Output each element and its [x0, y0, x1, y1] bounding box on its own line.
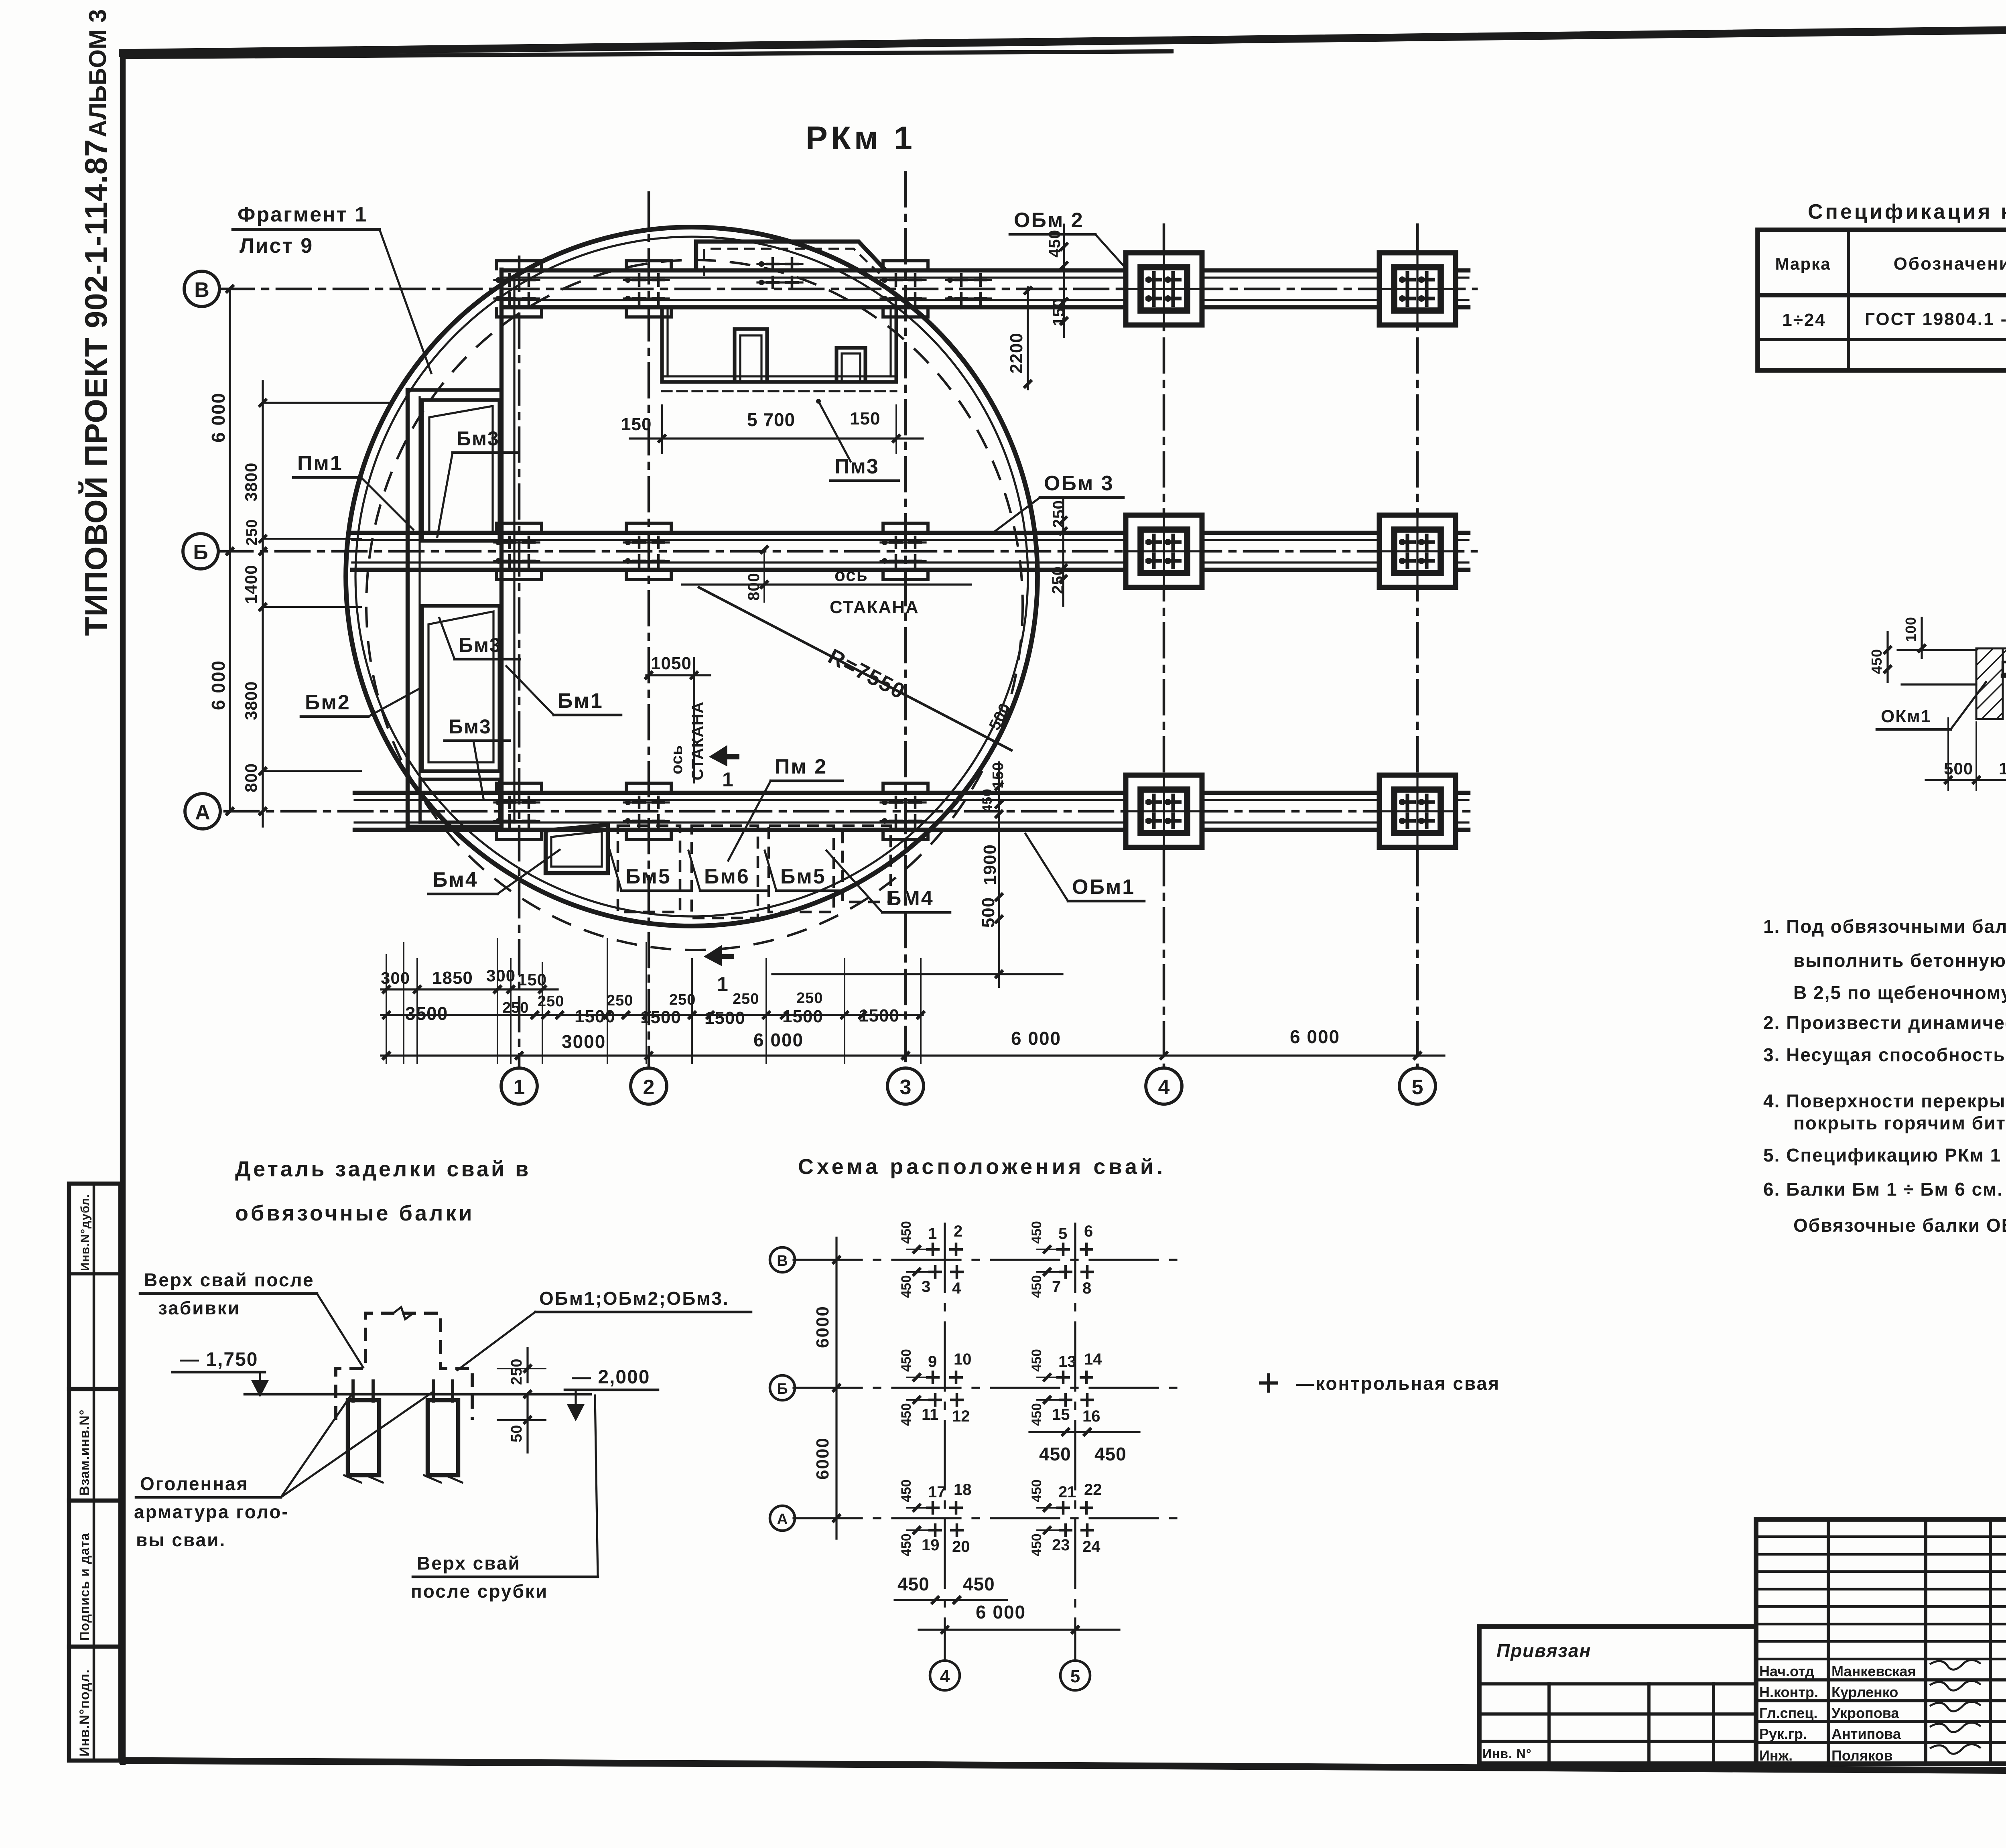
scheme axis Б — [770, 1375, 1180, 1400]
section mark 1 (upper) — [711, 747, 739, 791]
svg-text:— 2,000: — 2,000 — [572, 1367, 650, 1388]
scheme axis В — [770, 1247, 1180, 1272]
scheme pile group А/4 — [899, 1479, 972, 1556]
svg-text:В: В — [194, 278, 209, 302]
svg-text:4: 4 — [1158, 1076, 1170, 1099]
svg-text:3: 3 — [922, 1278, 930, 1296]
scheme bottom dim 6000 — [919, 1602, 1119, 1634]
pile marks 2/А — [624, 796, 669, 828]
svg-text:5: 5 — [1058, 1225, 1067, 1243]
svg-text:6. Балки Бм 1 ÷ Бм 6 см. лис: 6. Балки Бм 1 ÷ Бм 6 см. листы 10 ÷ 11 — [1763, 1179, 2006, 1200]
label Бм3 lower — [445, 715, 510, 798]
label Бм5 left — [610, 851, 689, 891]
svg-text:Б: Б — [777, 1381, 788, 1397]
bottom slabs Бм5/Бм6/Бм5 (dashed) — [618, 826, 891, 918]
detail: level -2.000 — [565, 1367, 658, 1419]
detail: dim 50 — [497, 1394, 546, 1452]
right dim 2200 — [1007, 286, 1032, 389]
beam ОБм2 raised segment over circle — [696, 242, 886, 270]
svg-text:15: 15 — [1052, 1406, 1070, 1424]
bottom slab Бм4 (left, solid) — [546, 825, 608, 873]
inner wall circle — [355, 237, 1028, 916]
pile cap at 4/В — [1126, 253, 1202, 325]
svg-text:250: 250 — [607, 992, 633, 1009]
svg-text:10: 10 — [954, 1350, 972, 1368]
pile marks 2/В — [624, 273, 669, 305]
left chord wall — [408, 390, 501, 827]
svg-text:22: 22 — [1084, 1481, 1102, 1499]
pier widening axis1/В — [497, 261, 542, 317]
detail: pile 2 — [424, 1381, 462, 1482]
left dim chain 6000/6000 — [208, 257, 234, 843]
label Бм2 — [301, 688, 420, 717]
svg-text:6000: 6000 — [813, 1306, 832, 1348]
svg-text:ОБм1: ОБм1 — [1072, 875, 1135, 899]
svg-text:Инж.: Инж. — [1759, 1747, 1793, 1764]
detail: ground line — [245, 1393, 591, 1396]
svg-text:1: 1 — [928, 1225, 937, 1243]
svg-text:Курленко: Курленко — [1831, 1684, 1898, 1700]
svg-text:СТАКАНА: СТАКАНА — [830, 597, 919, 617]
svg-text:250: 250 — [244, 519, 260, 546]
label Бм1 — [506, 666, 621, 715]
svg-text:Инв. N°: Инв. N° — [1482, 1746, 1532, 1761]
axis 5 bubble — [1399, 1068, 1435, 1104]
svg-text:после срубки: после срубки — [411, 1581, 548, 1602]
scheme pile group Б/4 — [899, 1349, 972, 1426]
svg-text:СТАКАНА: СТАКАНА — [689, 701, 707, 780]
svg-text:17: 17 — [928, 1483, 946, 1501]
svg-text:2: 2 — [643, 1076, 655, 1099]
svg-text:Бм5: Бм5 — [780, 865, 826, 888]
svg-text:23: 23 — [1052, 1536, 1070, 1554]
pile marks 3/А — [881, 796, 926, 828]
svg-text:450: 450 — [1029, 1403, 1044, 1426]
svg-text:Бм6: Бм6 — [704, 865, 750, 888]
grid axis В line — [220, 288, 1476, 290]
label Бм3 middle — [439, 618, 520, 659]
svg-text:1500: 1500 — [705, 1008, 745, 1028]
svg-text:выполнить бетонную подготовку: выполнить бетонную подготовку h = 100 мм… — [1793, 950, 2006, 971]
detail: level -1.750 — [173, 1349, 267, 1395]
svg-text:ГОСТ 19804.1 - 79*: ГОСТ 19804.1 - 79* — [1865, 309, 2006, 329]
svg-text:1900: 1900 — [1999, 759, 2006, 778]
svg-text:450: 450 — [899, 1533, 914, 1556]
svg-text:покрыть горячим битумом за: покрыть горячим битумом за 2 раза. — [1793, 1113, 2006, 1133]
svg-text:ОБм 2: ОБм 2 — [1014, 209, 1084, 232]
scheme pile group В/4 — [899, 1221, 964, 1298]
svg-text:4: 4 — [952, 1279, 961, 1297]
notes block — [1763, 916, 2006, 1236]
section: ground lines — [1898, 650, 2006, 684]
axis 3 bubble — [887, 1068, 924, 1104]
svg-text:2200: 2200 — [1007, 333, 1026, 374]
scheme left dim 6000/6000 — [813, 1238, 841, 1539]
svg-text:вы сваи.: вы сваи. — [136, 1529, 226, 1550]
bottom dim chain 3000/6000/6000/6000 — [381, 1026, 1444, 1060]
svg-text:Нач.отд: Нач.отд — [1759, 1663, 1814, 1679]
svg-text:500: 500 — [979, 897, 998, 928]
bottom dim chain 3500/250x/1500s — [381, 990, 925, 1028]
svg-text:Гл.спец.: Гл.спец. — [1759, 1705, 1817, 1721]
svg-text:АЛЬБОМ 3: АЛЬБОМ 3 — [84, 9, 111, 137]
right dims 250/250 (axis Б) — [1049, 498, 1068, 606]
svg-text:450: 450 — [1029, 1479, 1044, 1502]
svg-text:250: 250 — [508, 1359, 525, 1385]
pile cap at 5/Б — [1379, 515, 1456, 587]
outer wall circle — [346, 227, 1038, 926]
scheme dim 450/450 below А/4 — [895, 1574, 1007, 1604]
radius R=7550 — [699, 587, 1014, 750]
svg-text:21: 21 — [1058, 1483, 1076, 1501]
svg-text:Инв.N°дубл.: Инв.N°дубл. — [79, 1194, 92, 1271]
pile cap at 4/Б — [1126, 515, 1202, 587]
grid axis 4 line — [1163, 225, 1165, 1068]
svg-text:3800: 3800 — [242, 463, 260, 502]
svg-text:6 000: 6 000 — [753, 1030, 804, 1050]
spec row 1 — [1782, 309, 2006, 330]
svg-text:1500: 1500 — [782, 1007, 823, 1026]
svg-text:6000: 6000 — [813, 1437, 832, 1480]
pile marks 1/А — [494, 796, 539, 828]
svg-text:450: 450 — [1046, 229, 1064, 258]
pile cap at 4/А — [1126, 775, 1202, 847]
svg-text:обвязочные балки: обвязочные балки — [235, 1201, 475, 1225]
label ОБм1 — [1025, 834, 1144, 901]
svg-text:450: 450 — [1029, 1221, 1044, 1244]
label Бм5 right — [765, 851, 844, 891]
svg-text:6: 6 — [1084, 1223, 1093, 1240]
pier widening axis3/В — [883, 261, 928, 317]
svg-text:1÷24: 1÷24 — [1782, 310, 1826, 330]
svg-text:1850: 1850 — [432, 968, 473, 988]
svg-text:Бм3: Бм3 — [459, 634, 501, 656]
pile cap at 5/А — [1379, 775, 1456, 847]
svg-text:6 000: 6 000 — [976, 1602, 1026, 1623]
svg-text:250: 250 — [538, 993, 564, 1010]
svg-text:3500: 3500 — [405, 1003, 448, 1024]
svg-text:9: 9 — [928, 1353, 937, 1371]
pile marks 1/Б — [494, 536, 539, 568]
scheme legend: контрольная свая — [1259, 1373, 1500, 1394]
svg-text:5: 5 — [1412, 1076, 1423, 1099]
ring beam ОБм3 (axis Б) outline — [352, 533, 1468, 570]
svg-text:1: 1 — [722, 768, 733, 791]
svg-text:450: 450 — [899, 1403, 914, 1426]
svg-text:1. Под обвязочными балками: 1. Под обвязочными балками ОБм 1 ÷ ОБм 3… — [1763, 916, 2006, 937]
svg-text:450: 450 — [899, 1349, 914, 1372]
svg-text:2: 2 — [954, 1223, 962, 1240]
beam panel Бм3 upper — [422, 400, 499, 541]
svg-text:150: 150 — [990, 762, 1007, 788]
label Фрагмент 1 / Лист 9 — [233, 203, 431, 373]
svg-text:150: 150 — [850, 409, 880, 428]
svg-text:1: 1 — [717, 973, 728, 995]
pier widening axis3/Б — [883, 523, 928, 579]
right side dim chain 450/150 (axis В) — [1046, 225, 1068, 337]
svg-text:450: 450 — [899, 1479, 914, 1502]
svg-text:Обозначение: Обозначение — [1894, 254, 2006, 274]
pile marks on raised beam — [757, 257, 802, 289]
scheme axis 5 — [1060, 1224, 1090, 1690]
dim extension lines below plan — [386, 939, 921, 1063]
стакан vertical axis + dim 1050 — [645, 654, 710, 782]
svg-text:450: 450 — [1039, 1444, 1071, 1464]
title block: привязан box — [1479, 1627, 1756, 1764]
scheme pile group Б/5 — [1029, 1349, 1102, 1426]
axis 4 bubble — [1146, 1068, 1182, 1104]
title block: signature rows text — [1759, 1660, 1981, 1764]
svg-text:ТИПОВОЙ ПРОЕКТ 902-1-114.87: ТИПОВОЙ ПРОЕКТ 902-1-114.87 — [78, 139, 114, 636]
svg-text:Бм4: Бм4 — [432, 868, 478, 892]
svg-text:Лист 9: Лист 9 — [240, 234, 313, 258]
svg-text:6 000: 6 000 — [208, 660, 229, 710]
slab Пм3 outline — [662, 310, 896, 391]
scheme dim 450/450 below Б/5 — [1029, 1428, 1139, 1464]
svg-text:1050: 1050 — [651, 654, 692, 673]
svg-text:300: 300 — [381, 969, 410, 987]
svg-text:3: 3 — [900, 1076, 912, 1099]
ring beam ОБм2 (axis В) outline — [501, 270, 1468, 307]
svg-text:Верх свай: Верх свай — [417, 1553, 521, 1574]
svg-text:450: 450 — [899, 1221, 914, 1244]
pier widening axis2/Б — [626, 523, 671, 579]
svg-text:Обвязочные балки ОБм 1 ÷ ОБм: Обвязочные балки ОБм 1 ÷ ОБм 3 см. листы… — [1793, 1215, 2006, 1236]
svg-text:Марка: Марка — [1775, 254, 1831, 273]
svg-text:ось: ось — [834, 565, 868, 585]
svg-text:450: 450 — [980, 788, 995, 812]
title block: signature grid — [1756, 1519, 2006, 1764]
margin text: project name (rotated) — [78, 9, 114, 636]
label Пм1 — [293, 452, 413, 530]
detail: label ОБм1;ОБм2;ОБм3 — [457, 1288, 751, 1370]
svg-text:5 700: 5 700 — [747, 409, 795, 430]
svg-text:В 2,5 по щебеночному основани: В 2,5 по щебеночному основанию h = 100 м… — [1793, 982, 2006, 1003]
detail: break mark on top — [393, 1307, 413, 1319]
pile cap at 5/В — [1379, 253, 1456, 325]
svg-text:ОБм 3: ОБм 3 — [1044, 472, 1114, 495]
svg-text:Укропова: Укропова — [1831, 1705, 1899, 1721]
svg-text:5. Спецификацию РКм 1 см. л: 5. Спецификацию РКм 1 см. листы 12 ÷ 14 — [1763, 1145, 2006, 1166]
svg-text:Манкевская: Манкевская — [1831, 1663, 1916, 1679]
svg-text:В: В — [777, 1253, 788, 1269]
svg-text:Бм1: Бм1 — [558, 689, 603, 713]
svg-text:250: 250 — [796, 990, 823, 1007]
grid axis 1 line — [518, 257, 521, 1068]
scheme pile group В/5 — [1029, 1221, 1094, 1298]
left stamp column — [69, 1184, 120, 1761]
svg-text:100: 100 — [1902, 617, 1919, 642]
svg-text:4: 4 — [940, 1667, 950, 1686]
axis А bubble — [185, 794, 220, 829]
svg-text:забивки: забивки — [158, 1298, 240, 1318]
pier widening axis1/Б — [497, 523, 542, 579]
svg-text:Привязан: Привязан — [1496, 1640, 1591, 1661]
svg-text:1900: 1900 — [980, 844, 1000, 885]
pier widening axis2/В — [626, 261, 671, 317]
svg-text:18: 18 — [954, 1481, 972, 1499]
detail: dashed beam outline — [336, 1313, 472, 1420]
svg-text:А: А — [777, 1511, 788, 1528]
svg-text:450: 450 — [1029, 1349, 1044, 1372]
svg-text:Б: Б — [193, 541, 208, 564]
label Бм4 left — [428, 850, 560, 894]
svg-text:Пм3: Пм3 — [834, 455, 879, 478]
svg-text:250: 250 — [1049, 566, 1067, 594]
dashed excavation circle — [366, 260, 1023, 950]
axis Б bubble — [183, 534, 218, 569]
svg-text:5: 5 — [1070, 1667, 1080, 1686]
label Бм6 — [688, 851, 768, 891]
label Пм2 — [728, 755, 843, 861]
svg-text:Деталь заделки свай в: Деталь заделки свай в — [235, 1157, 531, 1181]
label БМ4 right — [826, 851, 950, 912]
axis 2 bubble — [631, 1068, 667, 1104]
pile marks 1/В — [494, 273, 539, 305]
svg-text:1500: 1500 — [859, 1006, 899, 1026]
detail: label оголенная арматура головы сваи — [134, 1392, 432, 1550]
axis В bubble — [184, 271, 219, 307]
beam panel Бм3 middle — [422, 606, 499, 771]
svg-text:800: 800 — [242, 763, 260, 792]
svg-text:450: 450 — [1029, 1275, 1044, 1298]
axis 1 bubble — [501, 1068, 537, 1104]
svg-text:24: 24 — [1082, 1538, 1100, 1556]
svg-text:13: 13 — [1058, 1353, 1076, 1371]
svg-text:—контрольная свая: —контрольная свая — [1296, 1373, 1500, 1394]
svg-text:1500: 1500 — [575, 1007, 615, 1026]
svg-text:250: 250 — [502, 999, 529, 1016]
svg-text:6 000: 6 000 — [1290, 1026, 1340, 1047]
label Бм3 upper — [437, 427, 518, 537]
svg-text:6 000: 6 000 — [208, 392, 229, 443]
lower left wall box — [420, 779, 499, 822]
svg-text:Подпись и дата: Подпись и дата — [77, 1533, 92, 1641]
svg-text:Пм 2: Пм 2 — [775, 755, 827, 778]
svg-text:3. Несущая способность сваи: 3. Несущая способность сваи 35 т. — [1763, 1044, 2006, 1065]
dim line 500/1900 below А beam right — [772, 947, 1062, 987]
scheme axis 4 — [930, 1224, 960, 1690]
pier widening axis2/А — [626, 783, 671, 839]
svg-text:6 000: 6 000 — [1011, 1028, 1061, 1049]
svg-text:ОБм1;ОБм2;ОБм3.: ОБм1;ОБм2;ОБм3. — [539, 1288, 729, 1309]
label ОБм3 — [995, 472, 1123, 531]
detail: dim 250 — [497, 1348, 546, 1398]
svg-text:— 1,750: — 1,750 — [180, 1349, 258, 1370]
scheme pile group А/5 — [1029, 1479, 1102, 1556]
grid axis 2 line — [648, 193, 650, 1068]
svg-text:250: 250 — [1050, 500, 1068, 528]
grid axis 5 line — [1416, 225, 1419, 1068]
svg-text:БМ4: БМ4 — [886, 887, 934, 910]
section: dim 450 left — [1868, 632, 1892, 682]
svg-text:450: 450 — [1094, 1444, 1127, 1464]
pile marks 2/Б — [624, 536, 669, 568]
svg-text:Спецификация к схеме распол: Спецификация к схеме расположения свай — [1808, 200, 2006, 223]
section: dims 500/1900/600 — [1926, 710, 2006, 790]
detail: label верх свай после забивки — [140, 1269, 363, 1367]
grid axis Б line — [219, 550, 1476, 553]
svg-text:ось: ось — [668, 745, 686, 774]
svg-text:Взам.инв.N°: Взам.инв.N° — [77, 1409, 92, 1496]
svg-text:Бм5: Бм5 — [625, 865, 671, 888]
svg-text:150: 150 — [1050, 298, 1068, 326]
svg-text:Схема расположения свай.: Схема расположения свай. — [798, 1155, 1166, 1179]
svg-text:Пм1: Пм1 — [297, 452, 343, 475]
section: beam Бм6 — [2003, 662, 2006, 676]
bottom dim chain 300/1850/300/150 — [381, 966, 558, 993]
svg-text:450: 450 — [1868, 649, 1885, 674]
svg-text:3800: 3800 — [242, 681, 260, 720]
pier widening axis3/А — [883, 783, 928, 839]
svg-text:2. Произвести динамическое и: 2. Произвести динамическое испытание кон… — [1763, 1012, 2006, 1033]
section: label ОКм1 — [1877, 682, 1986, 729]
svg-text:ОКм1: ОКм1 — [1881, 707, 1931, 726]
svg-text:Фрагмент 1: Фрагмент 1 — [238, 203, 367, 226]
pile marks right of axis 3/В — [946, 273, 991, 305]
svg-text:150: 150 — [621, 414, 652, 434]
section: left wall ОКм1 (hatched) — [1976, 648, 2003, 719]
svg-text:50: 50 — [508, 1425, 525, 1442]
pier widening axis1/А — [497, 783, 542, 839]
svg-text:7: 7 — [1052, 1278, 1061, 1296]
svg-text:14: 14 — [1084, 1350, 1102, 1368]
svg-text:12: 12 — [952, 1407, 970, 1425]
стакан horizontal axis — [682, 546, 971, 617]
wall beam Бм1 (vertical) — [501, 270, 514, 829]
svg-text:11: 11 — [922, 1406, 938, 1424]
svg-text:Верх свай после: Верх свай после — [144, 1269, 315, 1290]
svg-text:Бм3: Бм3 — [449, 715, 491, 738]
svg-text:20: 20 — [952, 1538, 970, 1556]
detail: pile 1 — [344, 1381, 383, 1482]
right dims 150/450/1900/500 (axis А) — [979, 762, 1007, 947]
svg-text:4. Поверхности перекрытия, со: 4. Поверхности перекрытия, соприкасающие… — [1763, 1091, 2006, 1111]
svg-text:Бм3: Бм3 — [457, 427, 499, 450]
svg-text:450: 450 — [1029, 1533, 1044, 1556]
section: slab Пм2 (hatched) — [1976, 648, 2006, 662]
detail title — [235, 1157, 531, 1225]
specification table grid — [1758, 230, 2006, 370]
detail: label верх свай после срубки — [411, 1395, 598, 1602]
left dim chain 3800/250/1400/3800/800 — [242, 381, 393, 827]
svg-text:Н.контр.: Н.контр. — [1759, 1684, 1818, 1700]
pile marks 3/В — [881, 273, 926, 305]
svg-text:Поляков: Поляков — [1831, 1747, 1893, 1764]
label ОБм2 — [1010, 209, 1124, 266]
svg-text:16: 16 — [1082, 1407, 1100, 1425]
svg-text:450: 450 — [963, 1574, 995, 1594]
section: dim 100 left — [1902, 617, 1926, 658]
svg-text:19: 19 — [922, 1536, 940, 1554]
scheme axis А — [770, 1506, 1180, 1531]
svg-text:250: 250 — [733, 991, 759, 1007]
section mark 1 (lower) — [706, 947, 734, 995]
dim 150/5700/150 over Пм3 — [621, 405, 923, 453]
svg-text:3000: 3000 — [562, 1031, 606, 1052]
grid axis А line — [225, 810, 1476, 813]
svg-text:Оголенная: Оголенная — [140, 1473, 248, 1494]
label Пм3 — [816, 399, 899, 481]
svg-text:арматура голо-: арматура голо- — [134, 1501, 289, 1522]
pile marks 3/Б — [881, 536, 926, 568]
svg-text:1: 1 — [514, 1076, 525, 1099]
svg-text:1400: 1400 — [242, 565, 260, 604]
svg-text:8: 8 — [1082, 1279, 1091, 1297]
svg-text:Антипова: Антипова — [1831, 1726, 1901, 1742]
svg-text:Инв.N°подл.: Инв.N°подл. — [77, 1669, 92, 1757]
svg-text:А: А — [195, 801, 210, 824]
